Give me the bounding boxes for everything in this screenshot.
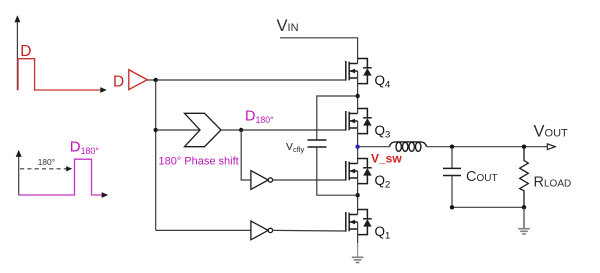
capacitor Cfly bbox=[308, 140, 327, 147]
svg-text:RLOAD: RLOAD bbox=[534, 175, 572, 191]
wire VIN to Q4 drain bbox=[280, 38, 358, 64]
transistor Q3 bbox=[346, 111, 358, 131]
svg-text:Q3: Q3 bbox=[375, 123, 391, 141]
svg-text:Vcfly: Vcfly bbox=[286, 141, 305, 154]
D180 pulse trace bbox=[19, 159, 103, 195]
wire D180 down to inverter U1 bbox=[241, 130, 251, 180]
ground (Q1 source) bbox=[352, 257, 364, 262]
wire inductor to output bbox=[427, 146, 548, 148]
wire to output ground bbox=[523, 207, 525, 228]
svg-text:D180°: D180° bbox=[245, 109, 274, 125]
wire phase shifter output bbox=[221, 129, 241, 131]
inductor L bbox=[390, 142, 427, 151]
svg-text:180° Phase shift: 180° Phase shift bbox=[159, 156, 239, 168]
D pulse trace bbox=[18, 59, 100, 90]
body diode of Q1 bbox=[358, 210, 372, 235]
wire U2 output to Q1 gate bbox=[273, 229, 346, 232]
svg-text:Q1: Q1 bbox=[375, 224, 391, 242]
svg-text:COUT: COUT bbox=[466, 169, 498, 185]
node V_sw (blue) bbox=[355, 145, 359, 149]
wire into phase shifter bbox=[156, 129, 200, 131]
svg-text:180°: 180° bbox=[38, 157, 55, 167]
wire U1 output to Q2 gate bbox=[273, 179, 346, 181]
axis arrowhead bbox=[100, 87, 107, 93]
node bottom right bbox=[522, 205, 526, 209]
wire bus to inverter U2 bbox=[156, 229, 251, 231]
ground (output) bbox=[518, 229, 530, 234]
svg-text:D180°: D180° bbox=[70, 139, 99, 157]
body diode of Q4 bbox=[358, 59, 372, 84]
wire output bottom bbox=[452, 206, 524, 208]
wire D180 to Q3 gate bbox=[241, 129, 346, 131]
wire vertical bus bbox=[155, 80, 157, 230]
waveform axis (D180 plot) bbox=[16, 150, 22, 195]
capacitor Cout bbox=[443, 147, 461, 208]
node Cout top bbox=[450, 145, 454, 149]
wire Q3 source to V_sw bbox=[357, 121, 359, 164]
wire D to Q4 gate bbox=[156, 79, 346, 81]
node D180 bbox=[239, 128, 243, 132]
svg-text:VIN: VIN bbox=[277, 17, 299, 35]
node A (Q4/Q3, Cfly top) bbox=[355, 94, 359, 98]
node bottom left bbox=[450, 205, 454, 209]
phase shifter chevron bbox=[185, 113, 222, 146]
svg-text:Q2: Q2 bbox=[375, 173, 391, 191]
svg-text:V_sw: V_sw bbox=[371, 152, 402, 166]
wire Cfly top bbox=[317, 96, 358, 140]
node phase-shift tap bbox=[154, 128, 158, 132]
transistor Q4 bbox=[346, 61, 358, 81]
body diode of Q3 bbox=[358, 109, 372, 134]
buffer (red triangle) bbox=[129, 70, 147, 90]
svg-text:VOUT: VOUT bbox=[534, 123, 569, 141]
waveform axis (D plot) bbox=[14, 15, 20, 90]
resistor Rload bbox=[520, 147, 529, 208]
svg-text:D: D bbox=[20, 43, 31, 60]
wire Cfly bottom bbox=[317, 147, 358, 195]
wire Q1 source to ground bbox=[357, 222, 359, 243]
body diode of Q2 bbox=[358, 159, 372, 184]
wire Q4 source to node A bbox=[357, 71, 359, 114]
node Rload top bbox=[522, 145, 526, 149]
svg-text:D: D bbox=[113, 73, 124, 90]
transistor Q1 bbox=[346, 212, 358, 232]
inverter U1 bbox=[251, 171, 273, 190]
svg-text:Q4: Q4 bbox=[375, 73, 391, 91]
180 deg delay arrow bbox=[20, 166, 72, 171]
node B (Q2/Q1, Cfly bottom) bbox=[355, 193, 359, 197]
VOUT open arrowhead bbox=[547, 144, 555, 150]
transistor Q2 bbox=[346, 161, 358, 181]
inverter U2 bbox=[251, 221, 273, 240]
wire Q2 source to node B bbox=[357, 171, 359, 215]
node buffer output bbox=[154, 78, 158, 82]
axis arrowhead bbox=[102, 192, 109, 198]
wire buffer output bbox=[147, 79, 156, 81]
wire V_sw to inductor bbox=[358, 146, 390, 148]
